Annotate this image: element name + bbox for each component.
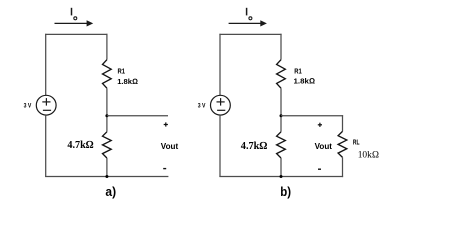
wire top (circuit a) (45, 33, 107, 35)
current label Io (circuit b) (247, 8, 252, 20)
resistor 4.7k zigzag (circuit b) (277, 132, 286, 158)
svg-text:b): b) (280, 184, 291, 199)
wire left upper (circuit a) (45, 34, 47, 96)
resistor 4.7k zigzag (circuit a) (103, 132, 112, 158)
svg-text:Vout: Vout (161, 142, 179, 151)
wire 4.7k bottom lead (circuit b) (280, 158, 282, 177)
svg-text:Vout: Vout (315, 142, 333, 151)
svg-text:4.7kΩ: 4.7kΩ (241, 140, 267, 152)
svg-text:3 V: 3 V (198, 103, 206, 110)
svg-text:R1: R1 (118, 66, 126, 75)
node junction bottom (circuit b) (280, 175, 283, 178)
wire left upper (circuit b) (219, 34, 221, 96)
wire 4.7k bottom lead (circuit a) (106, 158, 108, 177)
label + of Vout (circuit b) (318, 123, 322, 127)
voltage source V2 3V (circuit b) (211, 95, 231, 115)
current arrow Io (circuit a) (55, 20, 94, 26)
resistor R1 1.8k zigzag (circuit a) (103, 60, 112, 88)
svg-text:RL: RL (353, 139, 360, 146)
wire junction to RL (circuit b) (281, 115, 343, 117)
wire bottom (circuit b) (219, 176, 343, 178)
resistor RL zigzag (circuit b) (338, 131, 347, 157)
current label Io (circuit a) (72, 8, 77, 20)
label - of Vout (circuit b) (318, 168, 321, 170)
wire RL top lead (circuit b) (342, 115, 344, 131)
voltage source V1 3V (circuit a) (36, 95, 56, 115)
svg-text:3 V: 3 V (24, 103, 32, 110)
svg-text:4.7kΩ: 4.7kΩ (67, 139, 93, 151)
svg-text:1.8kΩ: 1.8kΩ (117, 77, 138, 86)
wire R1 bottom lead to junction (circuit b) (280, 88, 282, 132)
wire RL bottom lead (circuit b) (342, 157, 344, 177)
svg-text:1.8kΩ: 1.8kΩ (294, 77, 316, 86)
wire left lower (circuit a) (45, 115, 47, 177)
svg-text:R1: R1 (294, 67, 302, 76)
wire bottom (circuit a) (45, 176, 168, 178)
svg-text:10kΩ: 10kΩ (358, 149, 380, 160)
node junction top (circuit a) (105, 114, 108, 117)
wire top (circuit b) (219, 33, 281, 35)
resistor R1 1.8k zigzag (circuit b) (277, 60, 286, 88)
current arrow Io (circuit b) (229, 20, 267, 26)
label + of Vout (circuit a) (164, 122, 168, 126)
svg-text:a): a) (105, 184, 116, 199)
wire R1 top lead (circuit b) (280, 34, 282, 60)
node junction bottom (circuit a) (105, 175, 108, 178)
wire R1 top lead (circuit a) (106, 34, 108, 60)
node junction top (circuit b) (280, 114, 283, 117)
wire left lower (circuit b) (219, 115, 221, 177)
wire to Vout + (circuit a) (107, 115, 168, 117)
wire R1 bottom lead to junction (circuit a) (106, 88, 108, 132)
label - of Vout (circuit a) (163, 168, 166, 170)
